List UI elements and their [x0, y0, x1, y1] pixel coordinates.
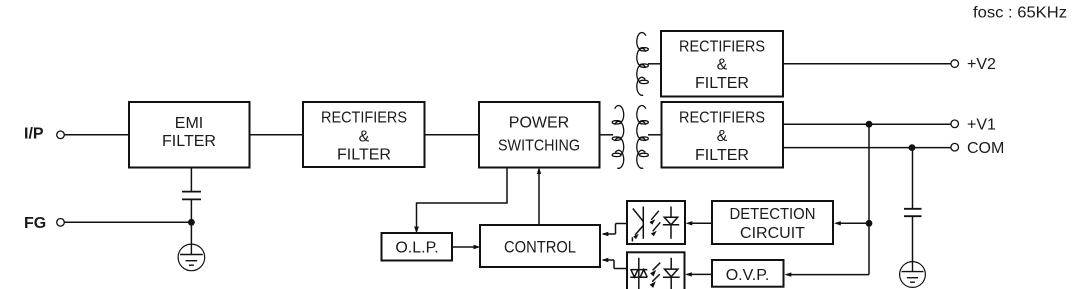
svg-text:fosc : 65KHz: fosc : 65KHz [973, 4, 1067, 21]
svg-text:DETECTION: DETECTION [730, 206, 816, 223]
svg-text:O.L.P.: O.L.P. [395, 240, 438, 257]
wire +V1 [783, 123, 951, 125]
wire FG junction to ground [190, 222, 192, 245]
terminal I/P [24, 126, 64, 143]
svg-text:FILTER: FILTER [695, 147, 749, 164]
block RECTIFIERS & FILTER (+V2) [661, 31, 783, 97]
optocoupler U1 [627, 201, 685, 244]
optocoupler U2 [627, 252, 685, 289]
terminal +V1 [951, 117, 996, 134]
ground (FG earth) [178, 244, 205, 271]
svg-text:FILTER: FILTER [162, 133, 216, 150]
wire POWER SWITCHING to transformer primary [600, 134, 614, 136]
svg-text:&: & [717, 128, 728, 145]
terminal +V2 [951, 56, 996, 73]
wire optocoupler U1 to CONTROL [602, 224, 628, 237]
svg-text:COM: COM [967, 140, 1004, 157]
svg-text:FILTER: FILTER [695, 75, 749, 92]
block CONTROL [480, 225, 600, 267]
svg-text:+V1: +V1 [967, 117, 996, 134]
svg-text:&: & [359, 129, 370, 146]
terminal FG [24, 215, 64, 232]
capacitor C1 [182, 192, 201, 223]
svg-text:CONTROL: CONTROL [504, 238, 576, 257]
svg-text:FG: FG [24, 215, 46, 232]
block RECTIFIERS & FILTER (+V1/COM) [662, 102, 784, 168]
wire FG [64, 221, 191, 223]
svg-text:O.V.P.: O.V.P. [726, 267, 770, 284]
svg-text:&: & [717, 57, 728, 74]
svg-text:I/P: I/P [24, 126, 44, 143]
wire optocoupler U2 to CONTROL [602, 258, 628, 269]
wire COM [783, 147, 951, 149]
junction dot FG [188, 219, 195, 226]
junction dot COM [909, 144, 916, 151]
wire COM junction to capacitor C2 [912, 148, 914, 209]
wire I/P to EMI FILTER [64, 134, 129, 136]
block O.L.P. [382, 233, 453, 261]
wire +V1 feedback to DETECTION CIRCUIT and O.V.P. [785, 124, 870, 277]
svg-text:+V2: +V2 [967, 56, 996, 73]
svg-text:RECTIFIERS: RECTIFIERS [679, 110, 765, 127]
wire secondary top to rectifiers V2 [648, 63, 661, 65]
block RECTIFIERS & FILTER (input) [303, 102, 425, 167]
ground (output earth) [900, 262, 926, 288]
wire RECTIFIERS to POWER SWITCHING [425, 134, 480, 136]
wire +V2 [783, 63, 951, 65]
wire O.V.P. to optocoupler U2 [685, 272, 712, 276]
svg-text:RECTIFIERS: RECTIFIERS [321, 109, 407, 126]
svg-text:RECTIFIERS: RECTIFIERS [679, 39, 765, 56]
svg-text:SWITCHING: SWITCHING [498, 138, 580, 155]
wire EMI to capacitor C1 [190, 168, 192, 192]
block DETECTION CIRCUIT [712, 201, 833, 244]
wire POWER SWITCHING to O.L.P. [417, 168, 508, 232]
block EMI FILTER [129, 102, 250, 168]
wire CONTROL to POWER SWITCHING [537, 167, 541, 225]
junction dot detection [866, 220, 873, 227]
svg-text:CIRCUIT: CIRCUIT [740, 225, 805, 242]
junction dot +V1 [866, 121, 873, 128]
svg-text:FILTER: FILTER [337, 147, 391, 164]
wire EMI to RECTIFIERS [250, 134, 304, 136]
wire DETECTION CIRCUIT to optocoupler U1 [686, 221, 713, 225]
svg-text:POWER: POWER [509, 115, 569, 132]
block POWER SWITCHING [479, 102, 600, 168]
transformer T1 secondary bottom winding [637, 106, 649, 169]
transformer T1 secondary top winding [637, 33, 649, 96]
wire O.L.P. to CONTROL [452, 245, 481, 249]
terminal COM [951, 140, 1004, 157]
transformer T1 primary winding [612, 106, 624, 169]
capacitor C2 [904, 209, 922, 262]
svg-text:EMI: EMI [175, 115, 203, 132]
wire secondary bottom to rectifiers V1 [648, 134, 662, 136]
block O.V.P. [712, 260, 784, 287]
